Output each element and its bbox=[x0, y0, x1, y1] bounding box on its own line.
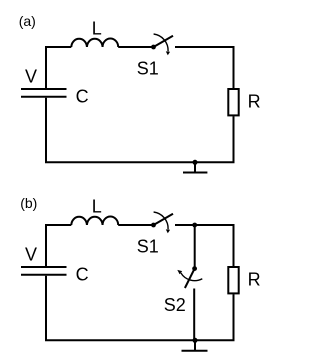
svg-text:V: V bbox=[25, 245, 37, 265]
svg-text:(a): (a) bbox=[19, 13, 36, 29]
svg-text:S2: S2 bbox=[164, 295, 186, 315]
svg-text:S1: S1 bbox=[137, 59, 159, 79]
svg-text:L: L bbox=[92, 18, 102, 38]
svg-text:R: R bbox=[248, 270, 261, 290]
svg-text:S1: S1 bbox=[137, 237, 159, 257]
svg-text:R: R bbox=[248, 92, 261, 112]
svg-text:C: C bbox=[76, 86, 89, 106]
svg-text:(b): (b) bbox=[20, 195, 37, 211]
svg-text:C: C bbox=[76, 264, 89, 284]
svg-text:L: L bbox=[92, 196, 102, 216]
svg-text:V: V bbox=[25, 67, 37, 87]
